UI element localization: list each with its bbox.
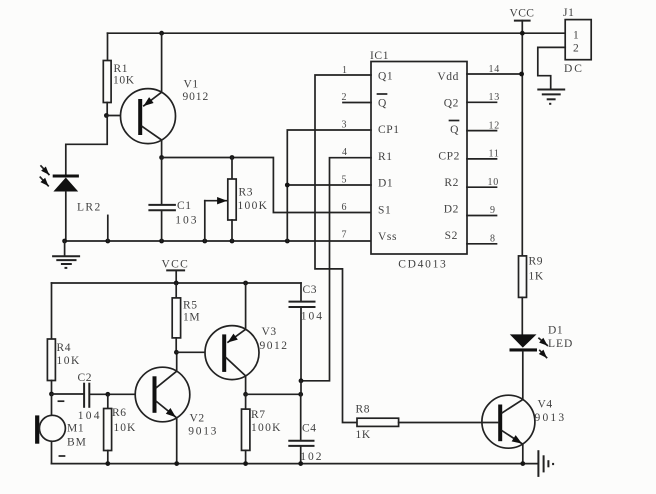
svg-text:IC1: IC1 xyxy=(370,50,389,62)
svg-text:C4: C4 xyxy=(302,423,317,435)
IC1 pin 1 Q1 xyxy=(342,65,393,83)
potentiometer R3 xyxy=(205,158,268,242)
svg-text:1K: 1K xyxy=(356,429,371,441)
junction V1 emitter at top rail xyxy=(159,31,164,36)
junction C4 bottom at rail xyxy=(298,461,303,466)
wire base node to V1 xyxy=(106,115,138,117)
svg-text:LR2: LR2 xyxy=(77,202,102,214)
junction R7 bottom at rail xyxy=(243,461,248,466)
wire J1 pin 2 to ground xyxy=(538,47,565,88)
junction V2 emitter at rail xyxy=(174,461,179,466)
svg-text:D2: D2 xyxy=(444,204,459,216)
microphone M1 BM xyxy=(35,394,87,464)
svg-text:100K: 100K xyxy=(238,200,269,212)
power symbol VCC (top) xyxy=(510,8,535,21)
junction R3 wiper at rail xyxy=(202,239,207,244)
svg-text:C1: C1 xyxy=(177,200,192,212)
svg-text:R8: R8 xyxy=(356,404,371,416)
svg-text:LED: LED xyxy=(548,338,573,350)
junction R6 bottom at rail xyxy=(105,461,110,466)
IC1 pin 8 S2 xyxy=(445,230,497,245)
ground (below J1) xyxy=(537,90,565,104)
junction pin 14 at VCC line xyxy=(519,72,524,77)
wire pin 3 CP1 to ground rail xyxy=(287,130,371,241)
svg-text:DC: DC xyxy=(564,63,584,75)
capacitor C3 xyxy=(289,283,325,381)
transistor V4 9013 xyxy=(482,395,566,463)
svg-text:C2: C2 xyxy=(78,372,93,384)
resistor R7 xyxy=(242,394,282,463)
junction pin4 wire at C3 bottom xyxy=(299,378,304,383)
resistor R9 xyxy=(519,256,544,335)
wire pin 1 Q1 to R8 xyxy=(315,75,371,423)
junction V3 collector/R7 node xyxy=(243,392,248,397)
ground (top-left) xyxy=(52,241,80,268)
wire bottom rail (audio ground) xyxy=(52,463,538,465)
svg-text:M1: M1 xyxy=(67,423,84,435)
IC1 pin 14 Vdd xyxy=(437,64,521,83)
junction V1 collector node xyxy=(159,155,164,160)
svg-text:CD4013: CD4013 xyxy=(398,259,447,271)
junction VCC rail xyxy=(520,31,525,36)
svg-text:11: 11 xyxy=(489,149,500,160)
svg-text:104: 104 xyxy=(78,410,102,422)
wire stub near LR2 xyxy=(107,215,109,241)
junction pin5 wire on CP1 wire xyxy=(285,183,290,188)
junction R6 top xyxy=(105,392,110,397)
svg-text:10K: 10K xyxy=(113,75,135,87)
junction R4/C2/M1 node xyxy=(49,392,54,397)
svg-text:CP1: CP1 xyxy=(378,124,400,136)
svg-text:R7: R7 xyxy=(251,409,266,421)
svg-text:VCC: VCC xyxy=(162,259,190,271)
svg-text:VCC: VCC xyxy=(510,8,535,20)
wire node to C2 xyxy=(52,393,84,395)
svg-text:102: 102 xyxy=(300,451,323,463)
svg-text:2: 2 xyxy=(342,92,348,103)
svg-text:1K: 1K xyxy=(529,271,544,283)
svg-text:R1: R1 xyxy=(378,151,393,163)
op-amp IC1 CD4013 box xyxy=(371,62,467,255)
svg-text:C3: C3 xyxy=(303,284,318,296)
svg-text:V4: V4 xyxy=(538,399,553,411)
svg-text:R3: R3 xyxy=(239,187,254,199)
IC1 pin 13 Q2 xyxy=(444,92,500,110)
IC1 pin 4 R1 xyxy=(342,147,393,163)
svg-text:CP2: CP2 xyxy=(438,151,460,163)
svg-text:R1: R1 xyxy=(114,63,129,75)
capacitor C2 xyxy=(78,372,102,422)
resistor R8 xyxy=(356,404,499,442)
svg-text:1: 1 xyxy=(573,30,579,42)
transistor V2 9013 xyxy=(135,352,218,463)
svg-text:9012: 9012 xyxy=(260,340,289,352)
wire C3 bottom to C4 node xyxy=(300,381,302,395)
svg-text:Q: Q xyxy=(450,124,459,136)
svg-text:9013: 9013 xyxy=(535,412,567,424)
wire V1 collector node to IC pin 6 S1 xyxy=(162,158,371,213)
IC1 pin 6 S1 xyxy=(342,202,392,217)
junction at C3/C4 vertical xyxy=(298,392,303,397)
svg-text:BM: BM xyxy=(67,437,87,449)
svg-text:9: 9 xyxy=(490,205,496,216)
photodiode LR2 xyxy=(40,166,101,214)
svg-text:S1: S1 xyxy=(378,205,391,217)
IC1 pin 5 D1 xyxy=(342,175,394,190)
IC1 pin 12 Qbar2 xyxy=(450,120,501,136)
svg-text:10: 10 xyxy=(488,177,500,188)
svg-text:12: 12 xyxy=(489,120,501,131)
svg-text:1M: 1M xyxy=(183,312,200,324)
transistor V1 9012 xyxy=(121,33,210,157)
ground (right, rotated) xyxy=(538,450,553,477)
IC1 pin 11 CP2 xyxy=(438,149,499,163)
wire ground rail (Vss net, pin 7) xyxy=(65,240,371,242)
svg-text:V1: V1 xyxy=(184,79,199,91)
junction R3 top xyxy=(230,155,235,160)
junction CP1 wire at rail xyxy=(285,239,290,244)
svg-text:D1: D1 xyxy=(548,325,563,337)
svg-text:13: 13 xyxy=(489,92,501,103)
transistor V3 9012 xyxy=(205,283,289,394)
svg-text:6: 6 xyxy=(342,202,348,213)
svg-text:104: 104 xyxy=(301,311,324,323)
IC1 pin 3 CP1 xyxy=(342,120,400,137)
svg-text:14: 14 xyxy=(489,64,501,75)
svg-text:10K: 10K xyxy=(57,355,81,367)
svg-text:Q2: Q2 xyxy=(444,98,459,110)
IC1 pin 7 Vss xyxy=(342,230,398,244)
wire base node down-left to LR2 xyxy=(66,116,107,175)
LED D1 xyxy=(510,325,574,358)
IC1 pin 9 D2 xyxy=(444,204,497,217)
svg-text:S2: S2 xyxy=(445,230,458,242)
svg-text:9012: 9012 xyxy=(183,91,210,103)
junction R3 bottom at rail xyxy=(230,239,235,244)
junction R5/V2 collector/V3 base xyxy=(174,350,179,355)
svg-text:3: 3 xyxy=(342,120,348,131)
wire VCC top rail xyxy=(108,32,566,34)
wire node to V3 base xyxy=(176,351,222,353)
wire LED to V4 collector xyxy=(522,352,524,400)
capacitor C4 xyxy=(288,394,323,463)
wire pin 4 R1 to C3 bottom node xyxy=(301,158,371,381)
svg-text:Vss: Vss xyxy=(378,231,397,243)
svg-text:5: 5 xyxy=(342,175,348,186)
svg-text:R4: R4 xyxy=(57,342,72,354)
wire C2 to V2 base xyxy=(90,393,153,395)
resistor R5 xyxy=(172,283,200,352)
wire pin 5 D1 to CP1 wire xyxy=(287,184,371,186)
svg-text:D1: D1 xyxy=(378,178,393,190)
svg-text:4: 4 xyxy=(342,147,348,158)
wire LR2 anode to ground rail xyxy=(65,192,67,242)
resistor R4 xyxy=(47,283,80,394)
junction VCC tap at audio rail xyxy=(174,281,179,286)
svg-text:R6: R6 xyxy=(112,407,127,419)
svg-text:7: 7 xyxy=(342,230,348,241)
resistor R1 xyxy=(103,33,134,115)
wire V3 collector node to C4 xyxy=(246,393,301,395)
wire VCC vertical to R9 xyxy=(521,21,523,256)
svg-text:Vdd: Vdd xyxy=(437,71,459,83)
svg-text:8: 8 xyxy=(490,234,496,245)
svg-text:Q: Q xyxy=(378,98,387,110)
svg-text:Q1: Q1 xyxy=(378,71,393,83)
resistor R6 xyxy=(104,394,137,463)
power symbol VCC (audio) xyxy=(162,259,190,284)
svg-text:100K: 100K xyxy=(251,422,282,434)
svg-text:9013: 9013 xyxy=(188,426,218,438)
junction C1 at rail xyxy=(159,239,164,244)
junction V3 emitter at audio rail xyxy=(243,281,248,286)
svg-text:R5: R5 xyxy=(183,300,198,312)
junction V4 emitter at bottom rail xyxy=(520,461,525,466)
junction V1 base node xyxy=(104,113,109,118)
svg-text:R9: R9 xyxy=(529,256,544,268)
junction LR2 at rail xyxy=(62,239,67,244)
svg-text:J1: J1 xyxy=(563,7,574,19)
wire VCC audio rail xyxy=(52,282,302,284)
IC1 pin 2 Qbar stub xyxy=(342,92,388,110)
svg-text:10K: 10K xyxy=(114,422,137,434)
svg-text:V2: V2 xyxy=(190,413,205,425)
svg-text:2: 2 xyxy=(573,43,579,55)
svg-text:R2: R2 xyxy=(444,177,459,189)
svg-text:103: 103 xyxy=(175,215,198,227)
svg-text:V3: V3 xyxy=(262,326,277,338)
IC1 pin 10 R2 xyxy=(444,177,499,189)
junction stub at rail xyxy=(105,239,110,244)
capacitor C1 xyxy=(148,158,198,242)
connector J1 xyxy=(563,7,591,75)
